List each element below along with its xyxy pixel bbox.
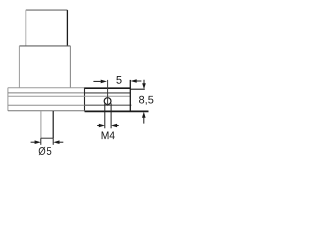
top connector block (front view) [26, 10, 68, 46]
stem left edge (front view) [40, 111, 42, 138]
flange body bottom edge (side view, dark) + extension to 8,5 arrow [85, 110, 149, 112]
boundary edge between front view body and side view [84, 88, 86, 112]
side view right edge + upper extension line for dimensions [129, 80, 131, 111]
extension lines for M4 dimension [104, 103, 106, 128]
flange body inner line 2 (side part, darker) [85, 92, 131, 94]
flange body inner line 4 (side part, darker) [85, 104, 132, 106]
dimension 8,5 label [139, 96, 153, 105]
dimension 5 label [116, 76, 121, 84]
dimension 5 (top): left arrow pointing right at hole centre line [93, 80, 100, 82]
flange body inner line 4 (front part) [8, 104, 85, 106]
dimension 8,5: bottom arrow pointing up to body bottom [143, 118, 145, 124]
left arrow of diameter 5 dimension [31, 141, 36, 143]
flange body bottom edge (front view) [8, 110, 85, 112]
flange body inner line 2 (front part) [8, 92, 85, 94]
dimension 5 (top): right arrow pointing left at body end extension [136, 80, 141, 82]
left arrow of M4 dimension [97, 125, 99, 127]
diameter 5 label [39, 147, 52, 155]
flange body left edge [7, 88, 9, 111]
right arrow of diameter 5 dimension [59, 141, 64, 143]
stem bottom face [41, 137, 53, 139]
flange body inner line 3 [8, 95, 131, 97]
dimension 8,5: top arrow pointing down to body top [143, 80, 145, 84]
middle block (front view) [19, 46, 70, 88]
threaded hole M4 (circle, side view) [104, 98, 111, 105]
flange body top edge (side view, dark) + extension to 8,5 arrow [85, 87, 131, 89]
M4 label [102, 132, 115, 140]
stem right edge (front view) [52, 111, 54, 138]
right arrow of M4 dimension [117, 125, 119, 127]
flange body top edge (front view, light) [8, 87, 85, 89]
body top edge extension to 8,5 dimension [131, 88, 145, 90]
extension lines for diameter 5 dimension [40, 138, 42, 145]
hole centre line / extension for 5 dimension [107, 80, 109, 106]
